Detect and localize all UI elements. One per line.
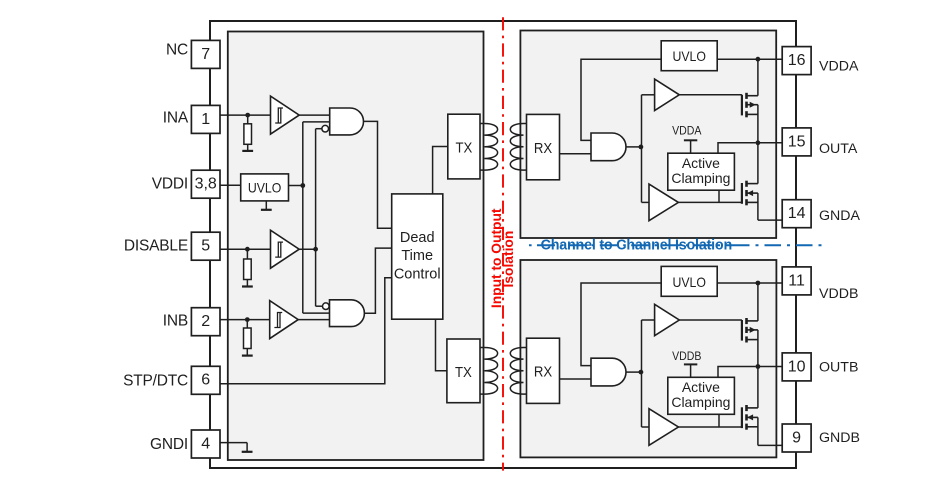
svg-text:1: 1 [201, 111, 210, 128]
svg-text:Time: Time [401, 248, 433, 264]
svg-text:GNDB: GNDB [819, 430, 860, 446]
svg-text:RX: RX [534, 363, 553, 380]
svg-text:9: 9 [792, 429, 801, 446]
svg-text:Clamping: Clamping [671, 394, 730, 410]
svg-text:UVLO: UVLO [672, 48, 706, 64]
svg-text:VDDB: VDDB [672, 350, 701, 363]
svg-text:NC: NC [166, 42, 188, 59]
svg-text:OUTA: OUTA [819, 141, 858, 157]
svg-text:TX: TX [455, 363, 472, 380]
svg-text:GNDA: GNDA [819, 208, 861, 224]
svg-text:DISABLE: DISABLE [124, 237, 188, 254]
svg-text:UVLO: UVLO [248, 180, 282, 196]
svg-text:15: 15 [788, 133, 806, 150]
svg-text:INB: INB [163, 313, 188, 330]
svg-text:Active: Active [682, 155, 720, 171]
svg-text:5: 5 [201, 238, 210, 255]
svg-text:VDDI: VDDI [152, 176, 188, 193]
svg-text:UVLO: UVLO [672, 274, 706, 290]
svg-text:4: 4 [201, 435, 210, 452]
svg-text:3,8: 3,8 [195, 176, 217, 193]
svg-text:Dead: Dead [400, 230, 435, 246]
svg-text:STP/DTC: STP/DTC [123, 373, 188, 390]
svg-text:6: 6 [201, 372, 210, 389]
svg-text:VDDA: VDDA [672, 125, 702, 138]
svg-text:Control: Control [394, 266, 441, 282]
svg-text:VDDB: VDDB [819, 286, 858, 302]
svg-text:14: 14 [788, 205, 806, 222]
svg-text:Active: Active [682, 379, 720, 395]
svg-text:Isolation: Isolation [501, 231, 516, 288]
svg-text:7: 7 [201, 46, 210, 63]
svg-text:16: 16 [788, 52, 806, 69]
svg-text:TX: TX [455, 139, 472, 156]
svg-text:11: 11 [788, 272, 805, 289]
svg-text:OUTB: OUTB [819, 360, 858, 376]
svg-text:RX: RX [534, 139, 553, 156]
svg-text:GNDI: GNDI [150, 436, 188, 453]
svg-text:VDDA: VDDA [819, 59, 859, 75]
svg-text:2: 2 [201, 313, 210, 330]
svg-text:10: 10 [788, 358, 806, 375]
svg-text:Clamping: Clamping [671, 170, 730, 186]
svg-text:INA: INA [163, 110, 189, 127]
